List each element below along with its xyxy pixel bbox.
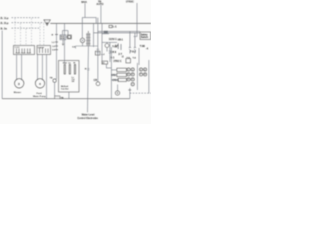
wire bottom bus: [2, 98, 130, 100]
terminal 2 row1: [131, 68, 134, 71]
safety switch box: [140, 32, 151, 40]
svg-text:M4A: M4A: [81, 0, 87, 4]
terminal 4 row1: [144, 68, 147, 71]
fuse L-1: [109, 25, 112, 27]
terminal 1 row3: [127, 78, 130, 81]
starter M2 box: [37, 46, 51, 55]
svg-text:5: 5: [128, 74, 129, 76]
svg-text:Control Electrodes: Control Electrodes: [77, 117, 98, 120]
terminal 2 row3: [131, 78, 134, 81]
wire box to bus: [68, 92, 70, 99]
svg-text:1TR2 C: 1TR2 C: [113, 60, 122, 63]
wire bus bypass loop: [82, 18, 96, 24]
coil CR2: [105, 44, 109, 48]
wire L3 dashed feeder: [12, 27, 40, 29]
pilot light P1: [81, 23, 83, 38]
wire dashed drop 1: [14, 18, 16, 45]
svg-text:CR: CR: [94, 79, 98, 82]
motor 4: [35, 79, 44, 88]
wire aux drop: [106, 64, 111, 68]
wire dashed drop 2: [20, 23, 22, 45]
svg-text:L-1: L-1: [113, 25, 117, 28]
contact M1b on control line: [55, 41, 58, 43]
wire right vertical x111: [110, 47, 112, 99]
svg-text:1: 1: [128, 69, 129, 71]
svg-text:6: 6: [132, 74, 133, 76]
wire motor3 feed a: [16, 55, 18, 81]
wire control loop top: [63, 30, 69, 32]
starter M1 box: [14, 46, 35, 55]
wire dashed drop 5: [39, 23, 41, 45]
svg-text:2L 2Lp: 2L 2Lp: [0, 21, 9, 25]
wire motor4 feed a: [37, 55, 39, 81]
terminal row4: [131, 83, 134, 86]
wire y42 run: [102, 41, 117, 43]
wire dashed drop 3: [25, 29, 27, 46]
wire 1TR2C riser: [134, 3, 138, 37]
aux box A1: [102, 61, 108, 64]
svg-text:T-88: T-88: [140, 45, 146, 48]
panel left border wire: [1, 31, 3, 99]
contact marks right column: [117, 43, 119, 49]
svg-text:Water Pump: Water Pump: [33, 95, 46, 98]
header box: [126, 59, 131, 63]
motor 3: [15, 79, 24, 88]
terminal 3 row1: [139, 68, 142, 71]
svg-text:1: 1: [132, 84, 133, 86]
svg-text:3: 3: [140, 69, 141, 71]
wire dashed to remote: [130, 92, 151, 94]
contact M1c on control line: [55, 45, 58, 47]
wire transformer secondary to bottom: [87, 46, 90, 113]
svg-text:T2P3P: T2P3P: [38, 47, 45, 49]
svg-text:2: 2: [132, 69, 133, 71]
junction block J1: [104, 31, 108, 34]
svg-text:1TR2C: 1TR2C: [126, 0, 134, 4]
svg-text:Switch: Switch: [141, 36, 149, 39]
wire motor3 feed b: [21, 55, 23, 81]
terminal 1 row2: [127, 73, 130, 76]
wire TB AUTO riser: [100, 5, 102, 23]
svg-text:Blower: Blower: [14, 92, 21, 94]
contact drop B x134.9: [134, 33, 136, 48]
svg-text:2L 1Lp: 2L 1Lp: [0, 16, 9, 20]
svg-text:CR2: CR2: [111, 75, 116, 77]
switch S1 on x97.8: [95, 51, 100, 55]
wire right control drop: [101, 23, 103, 61]
pilot light P2: [117, 85, 119, 91]
wire feed c: [46, 55, 48, 99]
junction X1: [129, 88, 131, 99]
wire drop x93.5: [93, 23, 95, 47]
wire right border: [148, 60, 150, 93]
contact CR drop: [109, 42, 111, 62]
transformer T1 triangle marker: [44, 20, 50, 26]
water level control box: [59, 61, 80, 93]
svg-text:Cut-Out: Cut-Out: [61, 88, 69, 91]
wire L2 dashed feeder: [12, 22, 44, 24]
wire electrode feed: [64, 23, 66, 63]
wire M4A riser: [84, 3, 86, 17]
svg-text:TB: TB: [61, 98, 64, 100]
svg-text:CR2-1: CR2-1: [112, 80, 119, 82]
terminal box TB on bus: [55, 96, 60, 99]
contact drop A x129.9: [129, 31, 131, 47]
svg-text:Off: Off: [72, 81, 75, 83]
wire dashed drop 6: [43, 23, 45, 45]
relay contact block CR2-c: [118, 78, 126, 81]
wire drop x97.8 to CR coil: [97, 18, 99, 82]
wire stub row2: [111, 74, 116, 76]
contact M1d on control line: [55, 49, 58, 51]
wire main bus: [50, 22, 151, 24]
terminal 3 row2: [139, 73, 142, 76]
relay contact block CR2-a: [117, 68, 127, 71]
svg-text:0: 0: [132, 79, 133, 81]
svg-text:Water Level: Water Level: [82, 113, 95, 116]
wire cluster to coil: [66, 36, 68, 38]
terminal 4 row2: [144, 73, 147, 76]
svg-text:8: 8: [144, 74, 145, 76]
wire stub row1: [111, 69, 116, 71]
transformer T2 winding band: [86, 33, 88, 46]
svg-text:3L 3a: 3L 3a: [0, 26, 7, 30]
wire terminal column: [136, 63, 138, 90]
svg-text:7: 7: [140, 74, 141, 76]
wire pilot bottom run: [76, 45, 98, 47]
svg-text:AUTO: AUTO: [96, 3, 103, 6]
svg-text:9: 9: [128, 79, 129, 81]
terminal 1 row1: [127, 68, 130, 71]
wire pair to safety switch: [98, 30, 140, 32]
wire dashed drop 4: [31, 18, 33, 45]
contact M1a on control line: [56, 23, 58, 79]
wire L1 dashed feeder: [12, 17, 40, 19]
wire stub row3: [111, 79, 118, 81]
terminal 2 row2: [131, 73, 134, 76]
svg-text:Safety: Safety: [141, 33, 149, 36]
svg-text:115V-1: 115V-1: [109, 38, 117, 41]
wire right drop x139: [138, 48, 140, 65]
svg-text:HB-1: HB-1: [118, 39, 124, 41]
wire motor4 feed b: [41, 55, 43, 81]
svg-text:4: 4: [144, 68, 145, 71]
relay contact block CR2-b: [117, 73, 127, 76]
ground: [62, 40, 64, 44]
svg-text:T-8.4: T-8.4: [130, 51, 136, 54]
coil M (boxed): [67, 35, 71, 39]
svg-text:A1: A1: [102, 62, 104, 65]
